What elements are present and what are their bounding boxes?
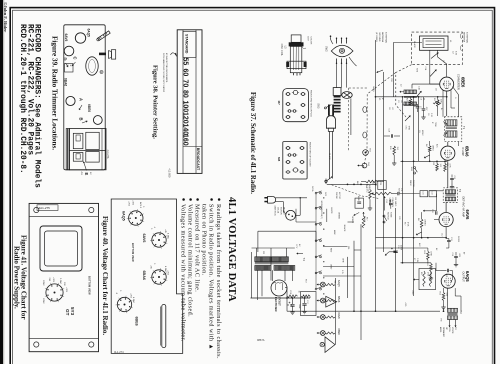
capacitor C23 box: [354, 198, 364, 216]
record changers note: [18, 24, 41, 188]
socket M8 front view: [283, 142, 307, 179]
svg-text:RCD.CH.20-1 through RCD.CH.20-: RCD.CH.20-1 through RCD.CH.20-8.: [18, 24, 26, 174]
svg-text:WITH GANG FULLY CLOSED, SET PO: WITH GANG FULLY CLOSED, SET POINTER: [162, 53, 165, 93]
svg-text:SW3: SW3: [317, 103, 320, 109]
svg-text:6AQ5: 6AQ5: [87, 29, 91, 38]
svg-text:.02: .02: [391, 107, 393, 110]
svg-text:GRN: GRN: [342, 258, 344, 263]
svg-text:BLACK: BLACK: [343, 225, 346, 232]
svg-text:4L1 VOLTAGE DATA: 4L1 VOLTAGE DATA: [226, 197, 237, 302]
tuning gang dashed enclosure: [349, 88, 369, 152]
dial lamp M1: [320, 337, 335, 353]
wire T2 to detector: [429, 191, 446, 212]
svg-text:4.7K: 4.7K: [449, 164, 451, 169]
svg-text:4.3AC: 4.3AC: [132, 297, 135, 303]
loop terminal strip: [65, 64, 74, 73]
svg-text:OUTPUT: OUTPUT: [461, 272, 464, 283]
svg-text:DET-AVC-AF AMP: DET-AVC-AF AMP: [461, 197, 464, 218]
external antenna bracket: [461, 32, 469, 51]
svg-text:6AV6: 6AV6: [465, 210, 470, 221]
wire 6BE6 plate to T1: [453, 87, 459, 147]
phono motor AC plug: [264, 196, 307, 215]
svg-text:PHONO: PHONO: [412, 180, 414, 187]
svg-text:R18: R18: [289, 291, 291, 294]
svg-text:B: B: [79, 118, 84, 121]
svg-text:120: 120: [182, 112, 189, 124]
label 5Y3GT RECTIFIER: [274, 297, 282, 312]
svg-text:RED: RED: [330, 248, 332, 253]
svg-text:6BE6: 6BE6: [135, 317, 139, 326]
diode capacitor C12: [431, 209, 439, 220]
Figure 37 caption: [249, 92, 256, 194]
coupling capacitor C18: [384, 129, 400, 138]
svg-text:Switch in Radio position. Vol: Switch in Radio position. Voltages marke…: [208, 204, 215, 350]
resistor R2: [406, 98, 412, 106]
svg-text:R17: R17: [404, 222, 406, 225]
svg-text:GT: GT: [65, 309, 70, 316]
label L1 / BLACK: [413, 40, 451, 49]
bypass capacitor C7: [419, 104, 427, 119]
svg-text:OSC: OSC: [405, 126, 407, 131]
tube 6AQ5 top view: [75, 29, 90, 44]
label T4: [297, 252, 307, 261]
plate wires output: [440, 288, 461, 311]
interlock receptacle M5: [333, 88, 341, 113]
svg-text:CONVERTER: CONVERTER: [456, 74, 459, 90]
label M7: [277, 90, 312, 118]
svg-text:FRONT VIEW OF SOCKET: FRONT VIEW OF SOCKET: [309, 142, 311, 167]
svg-text:TONE: TONE: [389, 212, 391, 218]
dial numbers: [182, 58, 189, 146]
socket 6AQ5 (fig 40): [121, 200, 144, 227]
bypass capacitor C10: [450, 175, 455, 189]
svg-text:Radio Power Supply.: Radio Power Supply.: [13, 246, 21, 309]
pilot lamp M2: [326, 296, 337, 307]
svg-text:Readings taken from tube socke: Readings taken from tube socket terminal…: [215, 204, 222, 359]
svg-text:+305: +305: [52, 277, 54, 283]
svg-text:4L1-274: 4L1-274: [114, 350, 124, 354]
svg-text:SW1A: SW1A: [311, 186, 314, 192]
antenna lead wire: [393, 43, 422, 98]
svg-text:6AQ5: 6AQ5: [337, 280, 341, 287]
screen resistor R3: [433, 98, 442, 107]
svg-text:TRIM: TRIM: [434, 122, 436, 127]
svg-text:PM: PM: [440, 319, 442, 322]
svg-text:C6: C6: [427, 113, 429, 115]
svg-text:Volume control minimum; gang c: Volume control minimum; gang closed.: [187, 204, 194, 317]
svg-text:20MF: 20MF: [298, 304, 300, 310]
phono input network R15: [361, 180, 384, 190]
svg-text:(LATE M10): (LATE M10): [274, 205, 277, 216]
svg-text:4A1-275: 4A1-275: [39, 206, 51, 210]
svg-text:6AV6: 6AV6: [142, 234, 146, 243]
svg-text:R19: R19: [305, 279, 307, 282]
svg-text:C: C: [73, 57, 78, 60]
svg-text:C21: C21: [422, 191, 424, 194]
svg-text:6AQ5: 6AQ5: [465, 271, 470, 282]
label 6AQ5 OUTPUT: [461, 271, 470, 282]
tuning gang assembly: [66, 129, 106, 170]
svg-text:BLU: BLU: [356, 181, 358, 185]
svg-text:D: D: [63, 58, 68, 61]
T4 lead wires: [252, 248, 295, 300]
Figure 39 chassis outline: [64, 25, 105, 170]
svg-text:TO: TO: [454, 327, 456, 330]
svg-text:R1: R1: [378, 98, 380, 100]
svg-text:GRAY: GRAY: [330, 264, 333, 270]
Figure 38 caption: [152, 65, 159, 139]
tuning gang C1 trimmers: [416, 70, 437, 98]
label SW2: [325, 46, 329, 52]
IF amplifier tube 6BA6: [441, 146, 455, 160]
selector switch SW1 contact chain: [315, 191, 324, 295]
tuning shaft: [96, 31, 110, 42]
trimmer C label: [72, 57, 78, 67]
output tube 6AQ5: [441, 274, 455, 288]
plate resistor R10: [423, 248, 432, 263]
trimmer A label: [79, 98, 84, 110]
svg-text:SW3: SW3: [324, 192, 326, 196]
filter resistors: [287, 295, 310, 298]
cathode resistor R5: [432, 163, 441, 172]
external antenna note: [375, 32, 388, 44]
pilot lamp filament string: [317, 282, 336, 335]
tone network R13 R14: [368, 181, 386, 211]
svg-text:EXTERNAL: EXTERNAL: [466, 32, 469, 44]
capacitor C17 box: [301, 292, 317, 316]
svg-text:BLUE: BLUE: [357, 196, 359, 202]
grid resistor R8: [416, 218, 425, 235]
svg-text:470K: 470K: [406, 222, 408, 227]
label BOTTOM VIEW (fig 40): [131, 243, 135, 262]
Figure 41 chassis outline: [29, 203, 98, 351]
part number 4A1-275: [37, 205, 58, 211]
svg-text:SW4: SW4: [416, 68, 418, 72]
svg-text:5.2AC: 5.2AC: [59, 278, 62, 284]
svg-text:6BA6: 6BA6: [337, 296, 341, 303]
svg-text:VOICE: VOICE: [451, 327, 453, 334]
junction dots: [286, 96, 447, 312]
pointer note: [162, 53, 177, 93]
AVC resistor R4: [424, 141, 433, 158]
svg-text:40: 40: [287, 304, 289, 306]
svg-text:PHONO: PHONO: [335, 192, 337, 199]
svg-text:117V: 117V: [295, 244, 297, 249]
svg-text:VOLUME: VOLUME: [388, 198, 390, 207]
volume shaft: [99, 50, 116, 59]
part number 4L1-274: [114, 350, 124, 354]
electrolytic C19: [385, 208, 402, 311]
svg-text:10MEG: 10MEG: [423, 219, 425, 226]
AC plug P1: [326, 105, 335, 129]
svg-text:TRIM: TRIM: [407, 126, 409, 131]
tube 6BE6 top view: [87, 104, 102, 124]
svg-text:305M: 305M: [42, 298, 44, 304]
svg-text:BLACK: BLACK: [413, 41, 416, 48]
voltage data notes: [180, 198, 223, 359]
svg-text:80: 80: [182, 90, 189, 98]
svg-text:455KC: 455KC: [421, 130, 423, 136]
svg-text:AC6.3: AC6.3: [139, 202, 142, 209]
label 6BE6 CONVERTER: [456, 74, 465, 90]
label M8: [277, 142, 311, 167]
label L3 OSC COIL: [280, 44, 287, 57]
svg-text:305M: 305M: [42, 280, 44, 286]
detector tube 6AV6: [439, 213, 453, 227]
socket 5Y3GT (fig 41): [42, 277, 67, 304]
svg-text:R9 1MEG: R9 1MEG: [394, 198, 396, 207]
Figure 39 caption: [51, 36, 59, 150]
svg-text:taken on Phono position.: taken on Phono position.: [201, 204, 208, 276]
svg-text:R11: R11: [420, 272, 422, 275]
svg-text:C12: C12: [441, 233, 443, 236]
line cord: [328, 128, 333, 178]
svg-text:+: +: [391, 247, 393, 251]
svg-text:+250: +250: [130, 293, 132, 299]
label TO VOICE COIL OF SPEAKER M123: [439, 327, 456, 337]
tube 6AV6 top view: [64, 34, 74, 56]
cathode resistor R12: [439, 288, 448, 309]
svg-text:4L1-273: 4L1-273: [366, 184, 368, 193]
output transformer T3: [448, 288, 458, 319]
svg-text:R7: R7: [413, 258, 415, 260]
svg-text:M8: M8: [277, 157, 281, 161]
trimmer E label: [80, 162, 91, 176]
svg-text:EXTERNAL: EXTERNAL: [384, 32, 387, 44]
wire IF row: [401, 97, 448, 296]
Rider copyright text: [3, 2, 8, 32]
svg-text:R: R: [101, 71, 103, 74]
svg-text:STANDARD: STANDARD: [185, 34, 189, 54]
chassis screws (fig 41): [34, 207, 94, 347]
svg-text:MICROGROOVE(?): MICROGROOVE(?): [320, 201, 322, 219]
svg-text:C9: C9: [418, 130, 420, 132]
power transformer outline (fig 41): [40, 226, 82, 271]
svg-text:PRI: PRI: [262, 251, 264, 255]
label PHONO MOTOR: [274, 205, 285, 216]
loop trimmer C2: [431, 51, 456, 59]
coupling capacitor C15: [444, 269, 453, 278]
svg-text:6BE6: 6BE6: [460, 77, 465, 88]
svg-text:RECTIFIER: RECTIFIER: [274, 297, 278, 312]
svg-text:ANTENNA: ANTENNA: [381, 32, 384, 43]
tuning shaft M3: [363, 149, 371, 156]
ground arrow (antenna): [377, 70, 384, 73]
switch SW1 arm contact: [325, 176, 333, 182]
svg-text:C20: C20: [398, 216, 400, 219]
svg-text:+305: +305: [132, 200, 134, 206]
osc trimmer C6: [405, 116, 411, 122]
svg-text:©John F. Rider: ©John F. Rider: [3, 2, 8, 32]
svg-text:9867A: 9867A: [257, 338, 265, 342]
oscillator coil L3 assembly drawing: [286, 35, 306, 76]
svg-text:470K: 470K: [430, 251, 432, 256]
wire heater bus: [251, 295, 311, 312]
bypass capacitor C4: [413, 104, 420, 112]
electrolytic C19A: [289, 298, 295, 314]
svg-text:+305: +305: [65, 287, 67, 293]
svg-text:AVC: AVC: [418, 243, 421, 247]
svg-text:4.3AC: 4.3AC: [167, 233, 170, 239]
label 5Y3 GT: [65, 307, 75, 316]
svg-text:6BA6: 6BA6: [64, 78, 68, 86]
svg-text:+265: +265: [404, 302, 406, 306]
svg-text:6BA6: 6BA6: [464, 146, 469, 157]
svg-text:70: 70: [182, 80, 189, 88]
svg-text:Figure 39. Radio Trimmer Locat: Figure 39. Radio Trimmer Locations.: [51, 36, 59, 150]
svg-text:BLACK: BLACK: [328, 153, 331, 160]
gang rotor C1: [342, 92, 352, 135]
osc grid resistor R1: [433, 102, 441, 104]
svg-text:47: 47: [381, 98, 383, 100]
capacitor C17: [302, 298, 308, 314]
svg-text:+250: +250: [167, 270, 169, 276]
schematic number 4L1-273: [366, 184, 368, 193]
svg-text:ANTENNA: ANTENNA: [463, 32, 466, 43]
svg-text:DOT: DOT: [306, 37, 308, 42]
heater bus wire: [325, 278, 335, 345]
svg-text:COIL: COIL: [448, 327, 450, 333]
Rider binder edge bar: [0, 0, 3, 364]
socket 6AV6 (fig 40): [142, 226, 170, 249]
svg-text:IN2: IN2: [66, 65, 68, 68]
svg-text:SWITCH: SWITCH: [387, 212, 389, 220]
part number 4L1-276: [106, 150, 109, 159]
svg-text:BOTTOM VIEW: BOTTOM VIEW: [131, 243, 135, 262]
svg-text:SW1B: SW1B: [398, 188, 400, 194]
label COLOR DOT: [302, 37, 312, 49]
label 6BA6 IF AMP: [461, 146, 470, 157]
label 6AV6 DET-AVC-AF AMP: [461, 197, 470, 221]
converter tube 6BE6: [440, 77, 454, 91]
svg-text:6BA6: 6BA6: [142, 271, 146, 280]
trimmer B label: [79, 118, 88, 124]
svg-text:6AV6: 6AV6: [64, 34, 68, 42]
tube 6BA6 top view: [64, 78, 76, 106]
svg-text:T4: T4: [302, 258, 306, 262]
svg-text:+250: +250: [411, 290, 413, 294]
IF transformer T2: [443, 188, 457, 202]
svg-text:BROADCAST: BROADCAST: [196, 148, 200, 171]
svg-text:BOTTOM VIEW: BOTTOM VIEW: [88, 276, 92, 295]
capacitor C14: [451, 252, 460, 267]
svg-text:COLOR: COLOR: [309, 37, 311, 45]
electrolytic can (fig 40): [161, 305, 166, 348]
speaker cutout: [86, 57, 98, 75]
svg-text:SW2: SW2: [325, 46, 329, 52]
svg-text:4L1-809: 4L1-809: [168, 169, 171, 178]
plug M7 front view: [283, 89, 309, 122]
svg-text:4L1-276: 4L1-276: [106, 150, 109, 159]
label BOTTOM VIEW (fig 41): [88, 276, 92, 295]
wire AF row: [376, 238, 447, 263]
Figure 40 chassis outline: [111, 199, 183, 353]
svg-text:IF AMP: IF AMP: [461, 148, 464, 157]
resistor network R11 R20 box: [413, 269, 435, 290]
long chassis wires: [326, 40, 384, 340]
svg-text:+250: +250: [128, 201, 130, 207]
svg-text:RADIO: RADIO: [409, 180, 412, 187]
svg-text:FRONT (PIN) VIEW OF PLUG: FRONT (PIN) VIEW OF PLUG: [310, 90, 312, 118]
svg-text:C1B: C1B: [418, 86, 420, 91]
svg-text:GROUND: GROUND: [378, 32, 380, 42]
Figure 40 caption: [101, 216, 109, 335]
dial cord pulley M3: [363, 107, 367, 113]
svg-text:M7: M7: [277, 101, 281, 105]
svg-text:Figure 37. Schematic of 4L1 Ra: Figure 37. Schematic of 4L1 Radio.: [249, 92, 256, 194]
svg-text:GREEN: GREEN: [338, 212, 340, 220]
svg-text:C5: C5: [420, 98, 422, 100]
heater labels: [337, 280, 341, 335]
wire converter row: [376, 84, 456, 117]
speaker leads: [448, 320, 456, 328]
svg-text:.05: .05: [400, 100, 402, 103]
screen resistor R6: [444, 161, 451, 172]
svg-text:2.2M: 2.2M: [416, 258, 418, 263]
part number 4L1-809: [168, 169, 171, 178]
dial scale box: [177, 30, 202, 174]
svg-text:GANG: GANG: [372, 86, 375, 92]
volume control R9: [332, 185, 437, 228]
svg-text:C3: C3: [397, 100, 399, 102]
phono motor B1: [283, 210, 300, 220]
label T1: [462, 126, 466, 130]
coupling capacitor C13: [446, 227, 452, 248]
IF transformer T1: [443, 117, 462, 142]
svg-text:AT DIAL SETTING SHOWN HERE.: AT DIAL SETTING SHOWN HERE.: [165, 53, 168, 83]
svg-text:A: A: [79, 98, 84, 101]
selector switch SW2 wafer: [330, 35, 357, 66]
loop antenna L1: [412, 32, 463, 65]
svg-text:6BE6: 6BE6: [337, 329, 341, 336]
svg-text:6AV6: 6AV6: [337, 313, 341, 320]
dial band BROADCAST: [196, 148, 200, 171]
svg-text:ARM: ARM: [333, 230, 336, 235]
svg-text:160: 160: [182, 134, 189, 146]
grid resistor R11: [426, 263, 433, 281]
power transformer T4: [255, 257, 295, 271]
svg-text:LW-4A: LW-4A: [277, 207, 280, 214]
svg-text:BLACK: BLACK: [363, 216, 366, 223]
oscillator coil L2: [400, 84, 417, 105]
registered mark: [100, 70, 103, 74]
svg-text:6BE6: 6BE6: [87, 104, 91, 112]
svg-text:MOTOR: MOTOR: [338, 192, 340, 200]
svg-text:PHONO: PHONO: [283, 207, 285, 215]
svg-text:C22: C22: [431, 191, 433, 194]
svg-text:DIODE: DIODE: [457, 236, 459, 243]
wire B+ rail: [287, 310, 440, 312]
switch SW2A: [410, 167, 418, 175]
pointer M4: [358, 163, 370, 168]
voltage data heading: [226, 197, 237, 302]
svg-text:1MEG: 1MEG: [431, 145, 433, 151]
dial cord dashed linkage: [364, 65, 412, 168]
label BLACK (cord): [328, 153, 331, 160]
svg-text:CONTROL: CONTROL: [391, 198, 393, 209]
dial band STANDARD: [185, 34, 189, 54]
label T3: [459, 311, 463, 315]
svg-text:Figure 40. Voltage Chart for 4: Figure 40. Voltage Chart for 4L1 Radio.: [101, 216, 109, 335]
svg-text:Figure 38. Pointer Setting.: Figure 38. Pointer Setting.: [152, 65, 159, 139]
socket 6BE6 (fig 40): [115, 290, 139, 326]
svg-text:3-30: 3-30: [430, 113, 432, 117]
svg-text:Measured on 117 volt AC line.: Measured on 117 volt AC line.: [194, 204, 201, 292]
svg-text:SPEAKER: SPEAKER: [442, 327, 445, 337]
socket 6BA6 (fig 40): [142, 263, 169, 286]
svg-text:M123: M123: [439, 327, 441, 333]
switch SW3 on volume control: [317, 103, 332, 109]
